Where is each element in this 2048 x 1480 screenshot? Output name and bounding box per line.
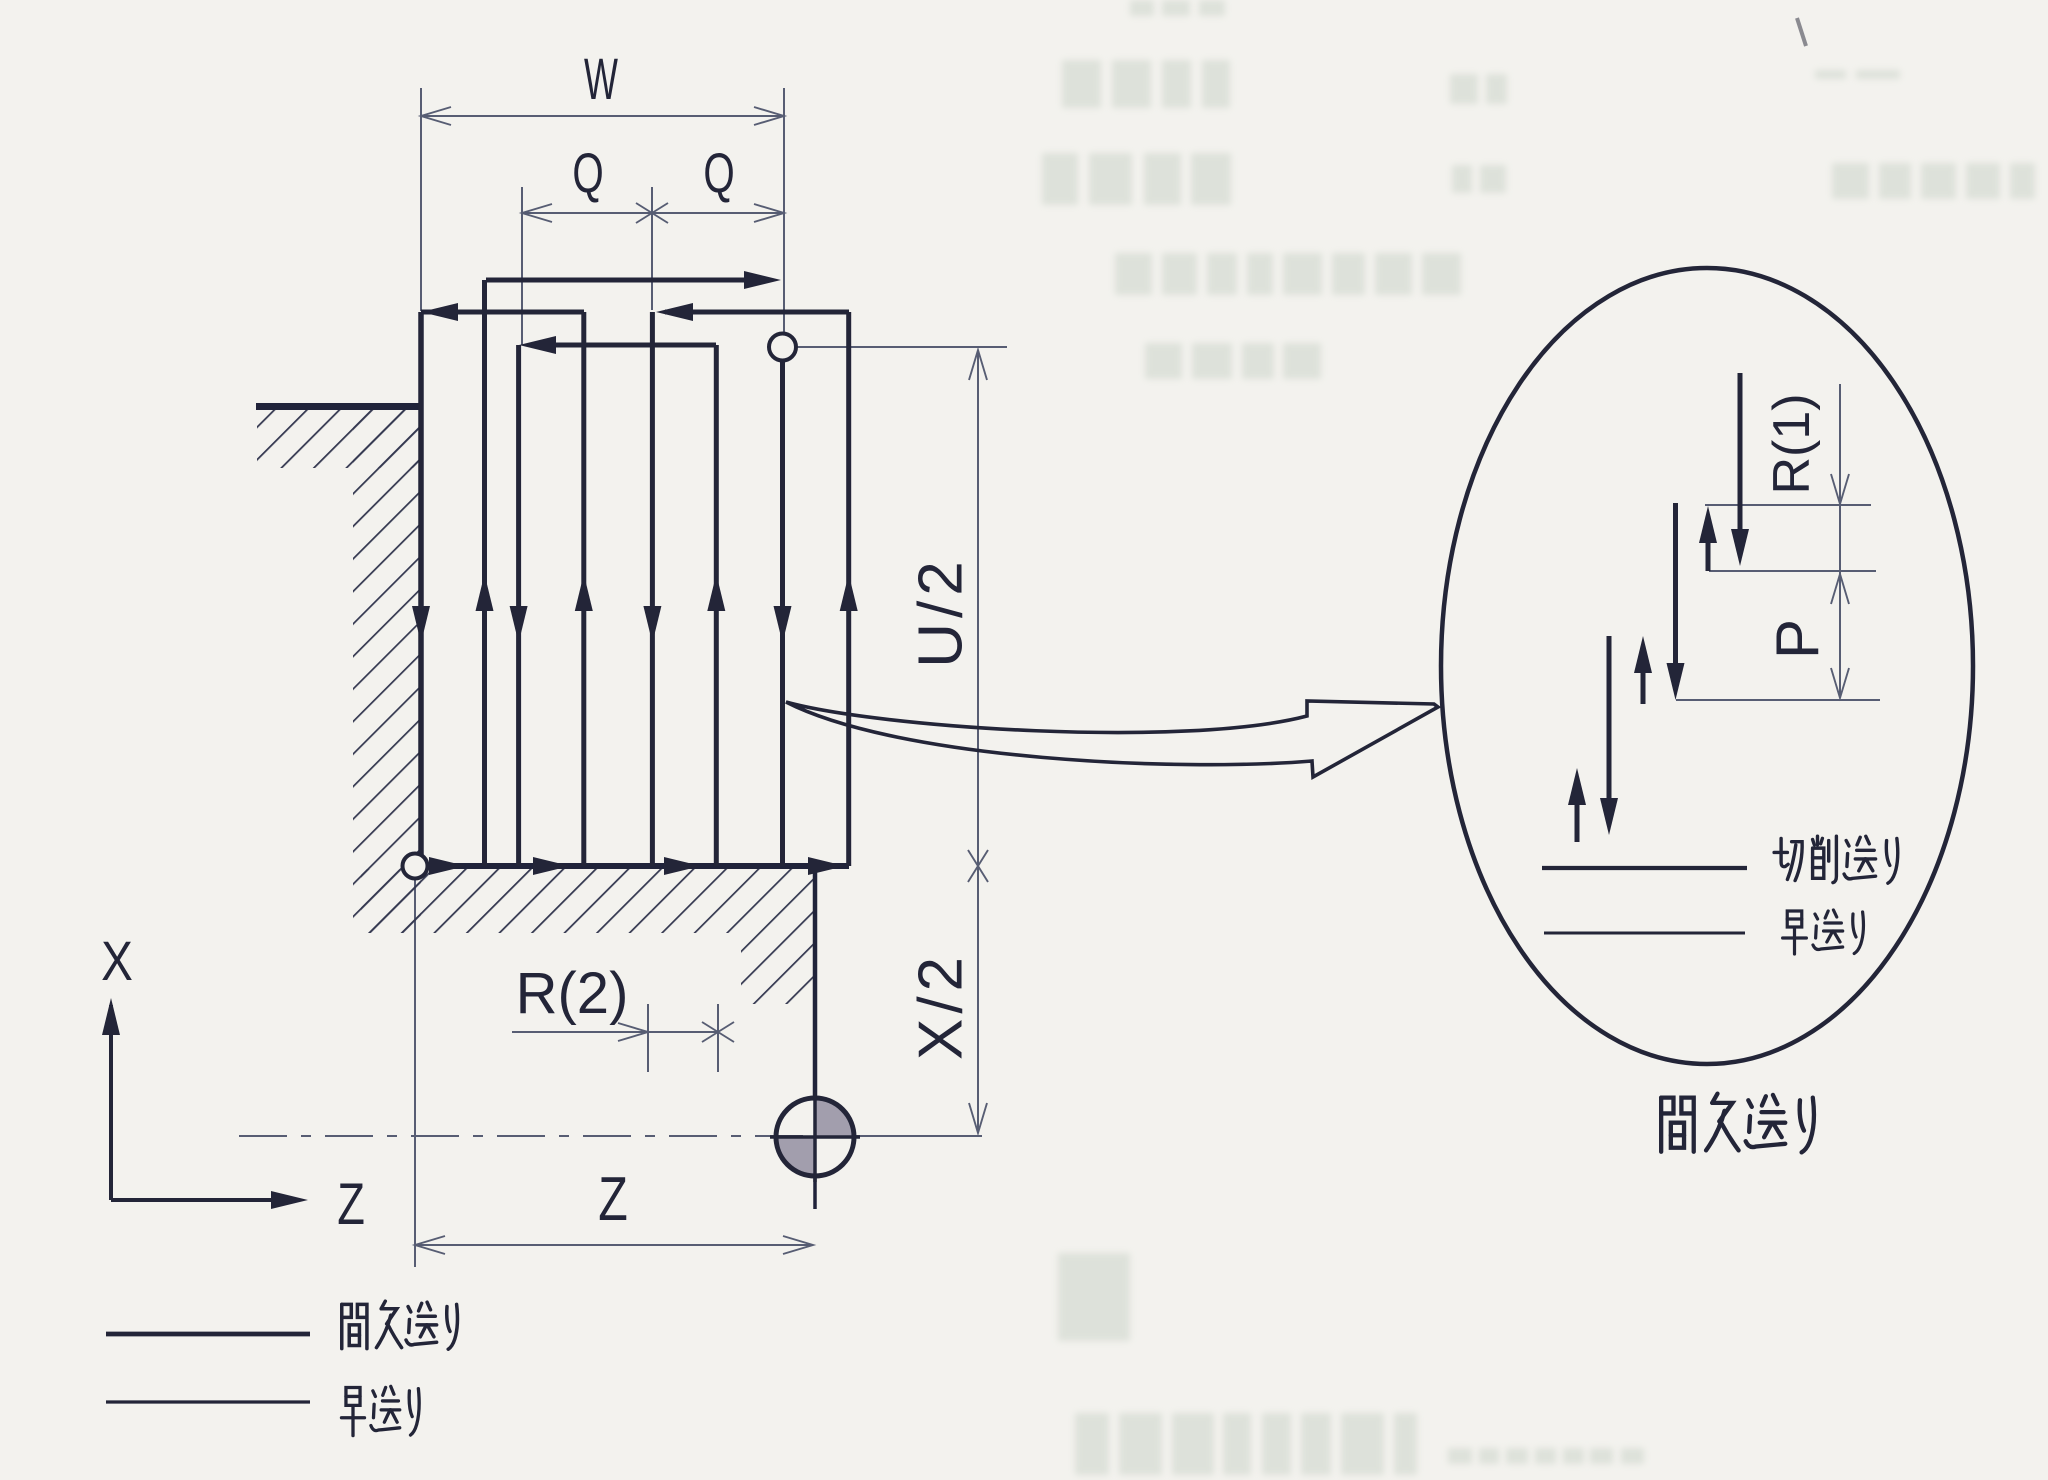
Q dim line (522, 212, 784, 214)
svg-text:W: W (584, 47, 618, 112)
detail thick arrows (1577, 373, 1740, 842)
centerline dash-dot (239, 1135, 852, 1137)
Z dim line (415, 1244, 813, 1246)
svg-text:U/2: U/2 (907, 556, 976, 667)
svg-text:R(2): R(2) (516, 961, 629, 1026)
top surface line (256, 403, 421, 410)
W ext lines (420, 88, 422, 311)
caption (1661, 1098, 1694, 1152)
bleedthrough (1042, 0, 2035, 1475)
svg-text:Z: Z (598, 1164, 628, 1233)
right edge (813, 866, 818, 1099)
dim arrowheads (421, 107, 451, 125)
svg-text:Q: Q (572, 143, 603, 205)
svg-text:X/2: X/2 (907, 952, 976, 1060)
detail thin lines (1676, 384, 1880, 700)
svg-text:X: X (101, 930, 133, 992)
crease mark (1797, 18, 1806, 46)
hatching (257, 410, 421, 468)
toolpath arrowheads (744, 271, 781, 289)
X/2 dim line (977, 866, 979, 1133)
svg-text:P: P (1764, 619, 1831, 659)
bottom corner circle (403, 854, 428, 879)
svg-text:Q: Q (703, 143, 734, 205)
R(2) dim line (512, 1031, 718, 1033)
W dim line (421, 115, 784, 117)
Z ext line (414, 880, 416, 1267)
svg-text:R(1): R(1) (1763, 393, 1821, 494)
U/2 dim line (977, 350, 979, 866)
detail legend (1542, 866, 1747, 870)
U/2 circle extension (797, 346, 1007, 348)
groove bottom line (411, 863, 849, 869)
start point circle (769, 334, 796, 361)
bottom travel arrows (429, 857, 466, 875)
svg-text:Z: Z (337, 1173, 365, 1238)
Q ext lines (521, 187, 523, 345)
R(2) ext lines (647, 1004, 649, 1072)
